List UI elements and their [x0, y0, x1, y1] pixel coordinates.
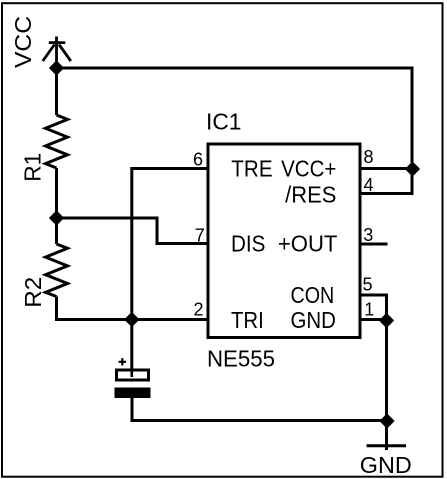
- svg-text:NE555: NE555: [207, 346, 275, 372]
- wire stub inside capacitor top plate: [131, 368, 134, 377]
- node junction dot pin2/pin6/cap: [125, 313, 138, 326]
- svg-text:2: 2: [194, 300, 204, 320]
- svg-text:6: 6: [193, 150, 203, 170]
- wire pin 5 (CON) to pin 1 net: [360, 295, 387, 320]
- wire VCC rail: junction to top-right corner down to pin4: [57, 68, 413, 194]
- svg-text:DIS: DIS: [231, 231, 265, 257]
- ground symbol: [367, 444, 407, 447]
- wire R1 bottom to junction: [55, 168, 58, 218]
- wire pin 3 stub (+OUT): [360, 243, 388, 246]
- svg-text:R1: R1: [20, 153, 46, 182]
- svg-text:/RES: /RES: [285, 182, 336, 208]
- wire pin 8 stub: [360, 167, 412, 170]
- wire capacitor bottom to ground net: [132, 398, 387, 421]
- svg-text:+OUT: +OUT: [278, 231, 338, 257]
- op IC1 NE555 body: [208, 144, 360, 338]
- resistor R1: [46, 115, 68, 168]
- svg-text:5: 5: [363, 275, 373, 295]
- svg-text:R2: R2: [20, 277, 46, 308]
- svg-text:1: 1: [364, 300, 374, 320]
- svg-text:GND: GND: [360, 452, 412, 478]
- svg-text:4: 4: [364, 175, 374, 195]
- node junction dot pin8/VCC: [406, 162, 419, 175]
- svg-text:3: 3: [363, 225, 373, 245]
- wire VCC to R1 top: [55, 68, 58, 115]
- wire pin 1 stub (GND): [360, 318, 387, 321]
- node junction dot pin1/pin5: [380, 314, 393, 327]
- resistor R2: [46, 244, 68, 297]
- VCC power symbol arrow: [43, 37, 71, 69]
- wire junction down to capacitor: [130, 320, 133, 378]
- svg-text:CON: CON: [291, 282, 335, 308]
- wire junction to R2 top: [55, 218, 58, 244]
- svg-text:7: 7: [195, 226, 205, 246]
- capacitor C1 bottom plate: [115, 388, 151, 399]
- svg-text:VCC+: VCC+: [281, 156, 336, 182]
- svg-text:TRE: TRE: [231, 156, 272, 182]
- node junction dot R1/R2/pin7: [50, 211, 63, 224]
- svg-text:VCC: VCC: [10, 16, 36, 68]
- wire pin 6 (TRE) down to pin 2 net: [132, 169, 208, 320]
- svg-text:IC1: IC1: [206, 109, 242, 135]
- node junction dot VCC/R1: [50, 61, 63, 74]
- wire junction to pin 7 (DIS): [57, 218, 209, 244]
- svg-text:8: 8: [364, 147, 374, 167]
- node junction dot cap/ground: [380, 414, 393, 427]
- wire R2 bottom to pin 2 (TRI): [57, 297, 209, 320]
- capacitor C1 plus sign: [119, 358, 126, 365]
- svg-text:GND: GND: [291, 307, 336, 333]
- capacitor C1 top plate: [117, 370, 149, 380]
- wire pin 1 down to ground: [385, 320, 388, 451]
- svg-text:TRI: TRI: [231, 307, 264, 333]
